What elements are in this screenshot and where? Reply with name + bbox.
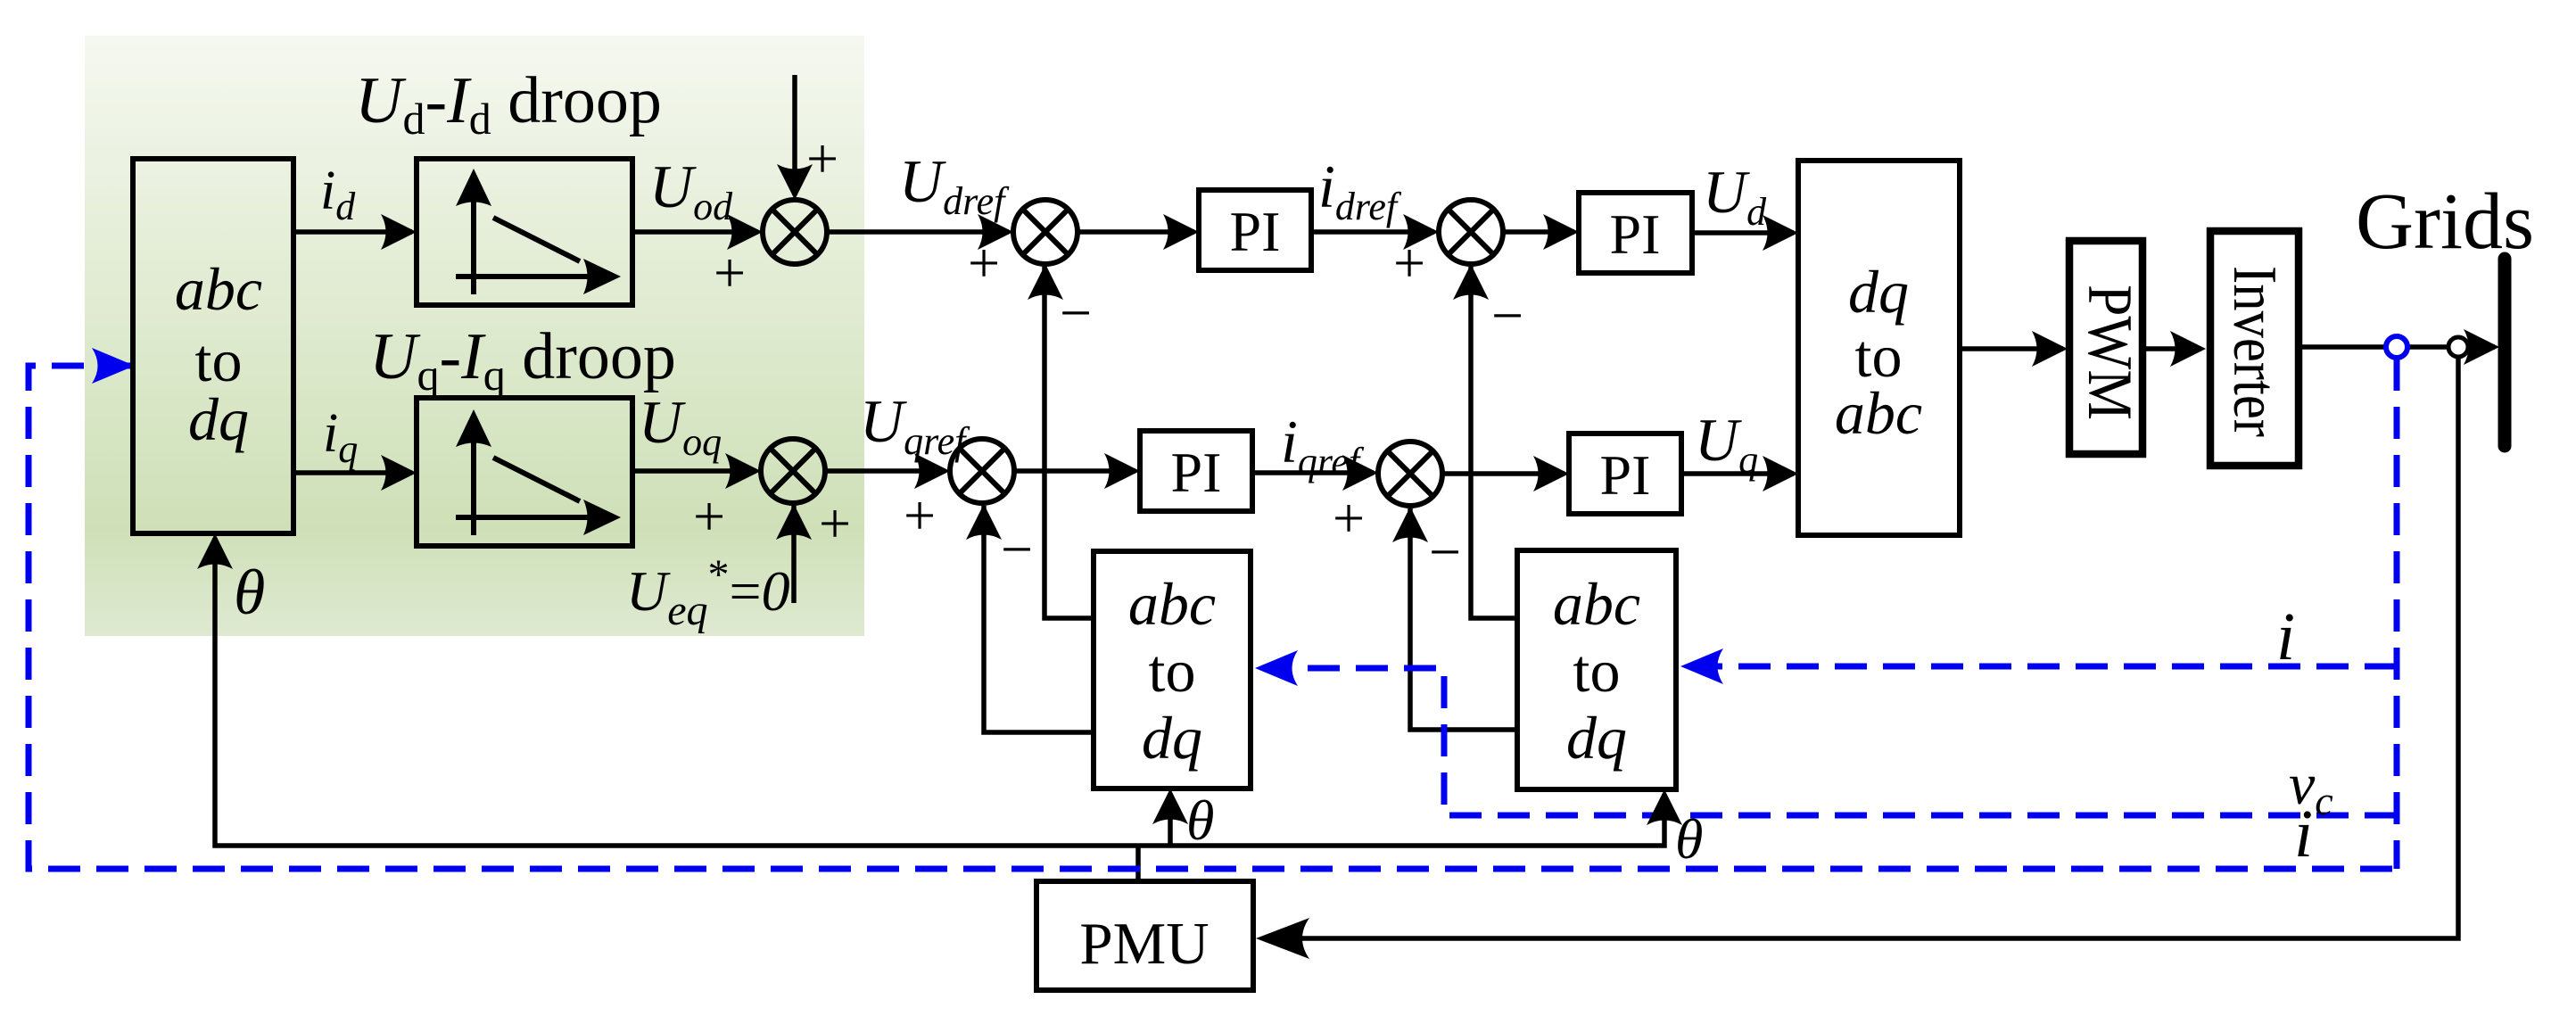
svg-text:dq: dq xyxy=(188,385,249,453)
svg-text:PI: PI xyxy=(1171,441,1222,504)
svg-text:Grids: Grids xyxy=(2356,178,2534,266)
svg-text:θ: θ xyxy=(1186,789,1214,852)
svg-text:PWM: PWM xyxy=(2075,285,2144,420)
svg-text:−: − xyxy=(1491,284,1523,347)
svg-text:to: to xyxy=(1573,637,1621,705)
svg-text:Inverter: Inverter xyxy=(2220,266,2289,437)
svg-text:abc: abc xyxy=(1128,570,1216,638)
svg-text:i: i xyxy=(2294,797,2313,871)
svg-text:+: + xyxy=(714,241,746,304)
svg-text:PMU: PMU xyxy=(1079,911,1209,977)
svg-text:PI: PI xyxy=(1600,443,1651,507)
svg-text:+: + xyxy=(904,483,936,547)
svg-text:dq: dq xyxy=(1848,258,1909,326)
svg-text:i: i xyxy=(2276,599,2295,674)
svg-text:to: to xyxy=(195,326,243,394)
svg-text:−: − xyxy=(1060,281,1092,344)
svg-text:+: + xyxy=(1333,486,1365,549)
svg-text:Ud-Id droop: Ud-Id droop xyxy=(355,64,662,144)
svg-text:abc: abc xyxy=(1553,570,1640,638)
svg-text:dq: dq xyxy=(1142,704,1202,772)
svg-text:PI: PI xyxy=(1230,200,1281,263)
svg-text:−: − xyxy=(1001,517,1033,581)
svg-text:abc: abc xyxy=(1835,379,1922,447)
svg-text:dq: dq xyxy=(1566,704,1627,772)
svg-text:to: to xyxy=(1149,637,1196,705)
svg-text:+: + xyxy=(968,231,1000,294)
svg-text:θ: θ xyxy=(234,557,265,628)
svg-text:abc: abc xyxy=(175,255,262,323)
svg-text:+: + xyxy=(819,491,851,555)
svg-text:Uq-Iq droop: Uq-Iq droop xyxy=(369,320,676,400)
svg-text:PI: PI xyxy=(1610,202,1661,266)
svg-text:−: − xyxy=(1429,520,1461,583)
svg-text:+: + xyxy=(806,127,838,190)
svg-text:+: + xyxy=(1393,231,1425,294)
svg-text:+: + xyxy=(693,484,725,548)
svg-text:θ: θ xyxy=(1675,807,1703,871)
